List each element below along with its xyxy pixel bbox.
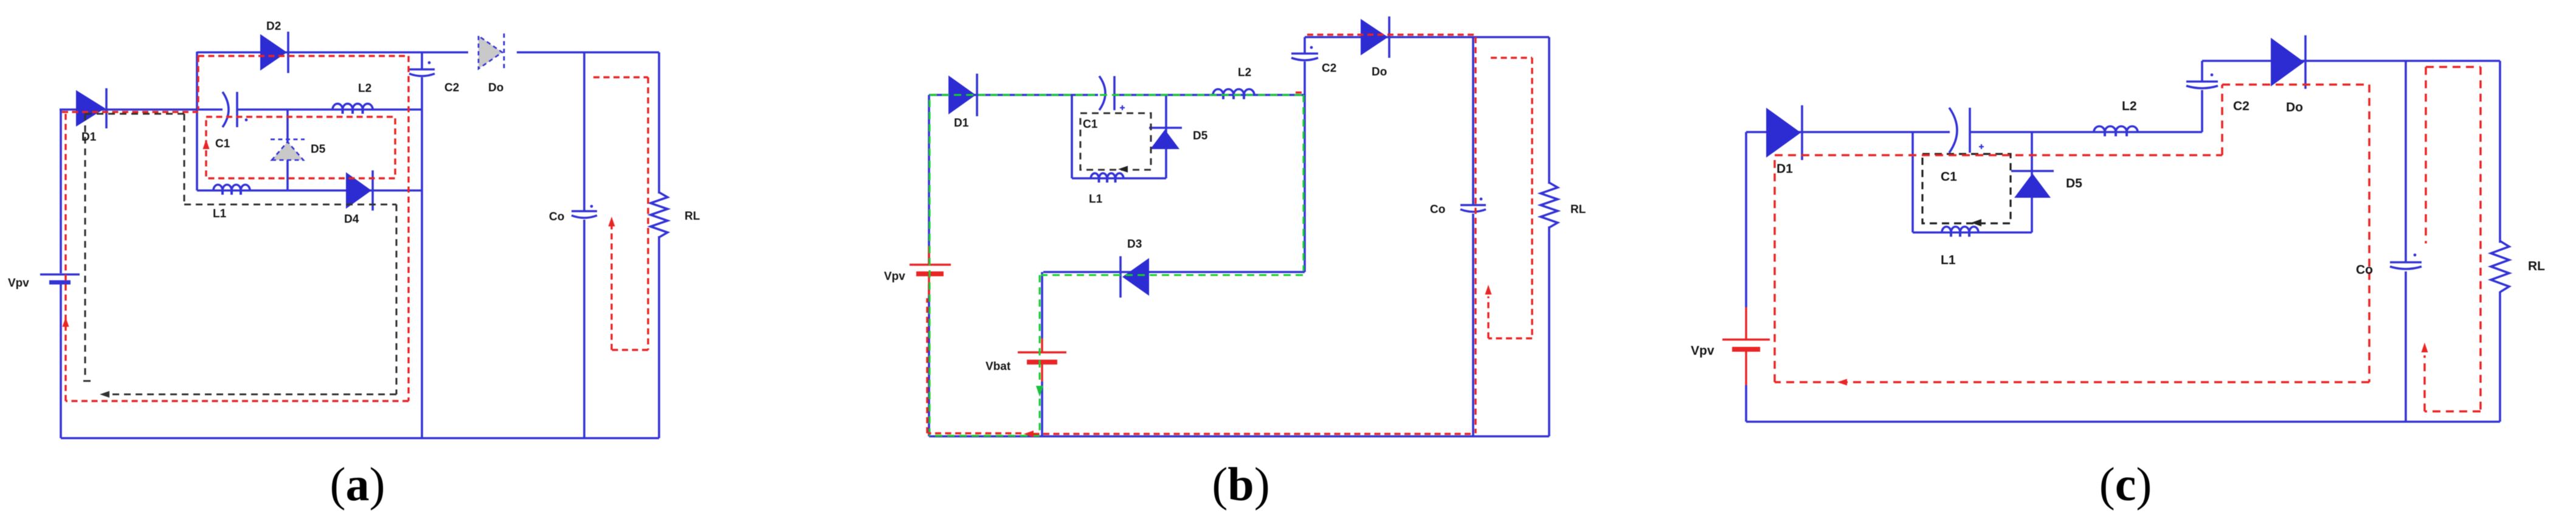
inductor L2 (c) (2094, 127, 2138, 133)
capacitor C1 (b) (1099, 76, 1125, 110)
battery Vbat red (b) (1018, 338, 1066, 382)
wire: C2 branch vertical (a) (421, 52, 423, 69)
black arrow left on bottom (a) (100, 391, 109, 398)
svg-text:Do: Do (1372, 66, 1387, 79)
svg-text:C2: C2 (1322, 62, 1336, 75)
wire: C1 loop left vertical (c) (1911, 132, 1914, 232)
red dashed output loop top (b) (1491, 57, 1532, 58)
wire: left vertical lower (b) (928, 284, 930, 436)
svg-text:RL: RL (1570, 203, 1586, 216)
svg-text:Vpv: Vpv (884, 270, 905, 283)
wire: top rail through Do (c) (2202, 60, 2500, 62)
capacitor C2 (a) (409, 61, 435, 76)
svg-text:L1: L1 (1941, 253, 1956, 267)
diode D5 off/dashed (a) (271, 139, 305, 160)
svg-text:Vbat: Vbat (986, 360, 1011, 373)
wire: Co branch vertical upper (a) (583, 52, 585, 211)
wire: rail C1 to C2 branch (b) (1114, 94, 1305, 96)
capacitor Co (a) (571, 205, 597, 218)
inductor L2 (a) (333, 103, 373, 110)
svg-text:D4: D4 (344, 213, 359, 226)
wire: C1 loop right vertical / D5 branch (c) (2031, 132, 2033, 232)
black dashed path: along input rail (a) (85, 113, 184, 114)
wire: C2 branch vertical lower (c) (2201, 90, 2203, 132)
wire: C2 branch vertical lower to D3 rail (b) (1304, 61, 1306, 272)
black dashed path: left vertical (a) (84, 114, 86, 376)
inductor L1 (c) (1942, 227, 1978, 233)
wire: Co branch vertical upper (c) (2405, 61, 2407, 262)
svg-text:C1: C1 (1083, 118, 1098, 131)
svg-text:C1: C1 (1941, 170, 1957, 184)
svg-text:D3: D3 (1127, 238, 1142, 251)
svg-text:RL: RL (685, 210, 700, 223)
red arrow left on bottom (c) (1837, 379, 1847, 386)
svg-text:Co: Co (1430, 203, 1445, 216)
red dashed path: left vertical (a) (64, 112, 66, 401)
red dashed: below input rail (c) (1775, 154, 2222, 156)
wire: Co branch vertical lower (a) (583, 220, 585, 438)
red dashed inner loop around C1-D5 (a) (206, 117, 395, 178)
red dashed path: top horizontal (a) (198, 55, 409, 57)
wire: top rail after Do to right corner (a) (517, 51, 659, 54)
green dashed: Vbat to bottom (b) (1038, 399, 1040, 435)
wire: right vertical upper (b) (1548, 37, 1550, 184)
red dashed: top rail from C2 to Co branch (b) (1307, 33, 1476, 35)
diode D1 (c) (1766, 105, 1802, 160)
green dashed: bottom to left wire (b) (930, 435, 1040, 436)
wire: C2 branch vertical upper (b) (1304, 37, 1306, 54)
svg-text:L1: L1 (213, 208, 227, 220)
wire: C2 branch vertical upper (c) (2201, 61, 2203, 82)
diode Do off/dashed (a) (478, 33, 504, 71)
wire: right vertical lower (b) (1548, 226, 1550, 436)
wire: D5 branch vertical (a) (286, 110, 289, 190)
svg-text:D5: D5 (1193, 130, 1208, 142)
diode D5 (b) (1149, 128, 1182, 149)
red dashed output loop bottom (c) (2425, 410, 2481, 413)
svg-text:(a): (a) (330, 458, 385, 511)
red arrow left on bottom (b) (1024, 431, 1034, 438)
green dashed: Vbat branch down (b) (1038, 275, 1040, 383)
wire: L1/D4 rail (a) (197, 189, 422, 192)
black tick minus (a) (83, 380, 91, 382)
red dashed output loop left rising (b) (1487, 296, 1489, 338)
wire: rail C1 to L2 to C2 branch (c) (1970, 131, 2202, 133)
svg-text:Do: Do (488, 82, 503, 94)
wire: C1 loop left vertical (b) (1071, 95, 1073, 178)
capacitor Co (c) (2390, 254, 2422, 269)
red dashed: left vertical (c) (1773, 155, 1776, 382)
wire: Co branch vertical upper (b) (1472, 37, 1474, 204)
green dashed: D3 rail (b) (1041, 274, 1303, 276)
green arrow down at Vbat (b) (1036, 386, 1043, 397)
green dashed: C2 branch down (b) (1302, 95, 1304, 271)
wire: bottom rail (b) (929, 435, 1549, 438)
wire: C1 loop right vertical / D5 branch (b) (1165, 95, 1167, 178)
black dashed path: horizontal under L1/D4 (a) (184, 203, 396, 205)
capacitor Co (b) (1460, 198, 1486, 212)
svg-text:D1: D1 (1777, 162, 1793, 176)
wire: C1 loop bottom with L1 (c) (1913, 231, 2032, 234)
capacitor C1 (c) (1949, 108, 1984, 153)
red dashed: top under Do (c) (2222, 83, 2369, 86)
resistor RL (a) (651, 192, 668, 237)
wire: Vbat branch upper (b) (1041, 272, 1043, 338)
red arrow up in output loop (b) (1485, 285, 1492, 295)
diode D3 pointing left (b) (1121, 256, 1149, 298)
svg-text:D1: D1 (954, 117, 969, 130)
red dashed output loop left rising (c) (2423, 355, 2426, 411)
inductor L1 (a) (213, 185, 250, 191)
wire: RL branch vertical upper (a) (658, 52, 660, 194)
red dashed: jog up at C2 (c) (2221, 85, 2223, 155)
black dashed box around C1 (b) (1080, 113, 1151, 170)
red dashed path: top-loop left vertical (a) (197, 56, 199, 110)
red dashed output loop left upper (c) (2425, 67, 2427, 243)
wire: input rail D1 to C1 (b) (929, 94, 1098, 96)
wire: left vertical from rail to Vpv (a) (60, 110, 62, 273)
red dashed output loop left rising (a) (610, 226, 612, 350)
red arrow up in output loop (a) (609, 217, 615, 226)
svg-text:(c): (c) (2099, 458, 2152, 511)
svg-text:Do: Do (2286, 100, 2303, 114)
svg-text:Vpv: Vpv (8, 277, 29, 290)
wire: rail from C1 to C2 branch (a) (237, 108, 422, 111)
red dashed: down right of Co (c) (2368, 85, 2371, 382)
inductor L2 (b) (1213, 89, 1254, 96)
wire: Vbat branch lower (b) (1041, 382, 1043, 436)
wire: left vertical lower (c) (1745, 385, 1747, 422)
red dashed: down Co branch (b) (1474, 37, 1476, 433)
diode Do (b) (1361, 16, 1389, 58)
svg-text:RL: RL (2528, 259, 2545, 273)
svg-text:(b): (b) (1212, 458, 1269, 511)
wire: RL branch vertical lower (a) (658, 236, 660, 438)
capacitor C1 (a) (223, 92, 247, 127)
wire: top rail through Do (b) (1305, 36, 1549, 38)
red dashed: bottom horizontal (c) (1775, 381, 2369, 383)
red dashed: bottom continues to left wire (b) (928, 432, 1021, 434)
red dashed output loop top (c) (2426, 66, 2481, 68)
diode D5 (c) (2011, 171, 2054, 198)
svg-text:C1: C1 (215, 138, 230, 150)
red dashed path: along input rail (a) (62, 111, 198, 113)
battery Vpv red (b) (910, 246, 951, 296)
wire: bottom rail (c) (1746, 421, 2500, 423)
green dashed: left wire up (b) (928, 95, 930, 436)
capacitor C2 (c) (2186, 74, 2218, 88)
red dashed output loop top (a) (593, 76, 648, 78)
red dashed: left wire up to Vpv (b) (926, 298, 928, 433)
wire: Co branch vertical lower (c) (2405, 271, 2407, 422)
red dashed: bottom leftwards (b) (1034, 433, 1471, 435)
black dashed path: right vertical (a) (395, 204, 397, 394)
wire: C1 loop bottom with L1 (b) (1072, 177, 1166, 180)
svg-text:Co: Co (2356, 263, 2373, 277)
wire: C2 branch vertical lower (a) (421, 77, 423, 438)
svg-text:Co: Co (549, 211, 564, 223)
diode D1 (b) (948, 74, 977, 116)
wire: vertical riser at top-loop left (a) (196, 52, 198, 190)
battery Vpv (a) (40, 274, 80, 282)
wire: right vertical lower (c) (2499, 291, 2501, 422)
black dashed path: vertical to L1 box (a) (183, 114, 185, 204)
svg-text:D5: D5 (2066, 176, 2082, 190)
red arrow up in output loop (c) (2422, 343, 2428, 352)
black dashed path: bottom horizontal (a) (103, 393, 396, 395)
red arrow up on left vertical (a) (63, 317, 69, 327)
svg-text:L1: L1 (1089, 193, 1103, 206)
battery Vpv red (c) (1722, 307, 1770, 385)
svg-text:D1: D1 (81, 131, 97, 144)
svg-text:D2: D2 (266, 20, 281, 33)
red dashed output loop right (a) (647, 77, 649, 350)
resistor RL (b) (1541, 183, 1558, 228)
black arrow into L1 (b) (1118, 166, 1128, 173)
red dashed output loop right (b) (1531, 58, 1533, 338)
wire: right vertical upper (c) (2499, 61, 2501, 243)
svg-text:C2: C2 (444, 82, 459, 94)
svg-text:C2: C2 (2233, 99, 2250, 113)
resistor RL (c) (2491, 241, 2509, 292)
red arrow up at C1 (a) (203, 139, 210, 149)
wire: left vertical upper (b) (928, 95, 930, 264)
wire: left vertical upper (c) (1745, 132, 1747, 307)
svg-text:L2: L2 (1238, 66, 1251, 79)
inductor L1 (b) (1091, 173, 1124, 178)
wire: left vertical from Vpv to bottom (a) (60, 282, 62, 438)
wire: input rail D1 to C1 (c) (1746, 131, 1950, 133)
red dashed path: right vertical (a) (407, 56, 409, 401)
red dashed output loop bottom (a) (612, 349, 648, 351)
wire: D3 rail (b) (1043, 271, 1305, 273)
svg-text:L2: L2 (358, 82, 371, 95)
svg-text:Vpv: Vpv (1691, 344, 1714, 358)
wire: input rail with D1 (a) (60, 108, 223, 111)
capacitor C2 (b) (1291, 46, 1318, 60)
red dashed path: bottom horizontal (a) (66, 400, 409, 402)
black dashed box around C1 (c) (1922, 154, 2011, 223)
red tick at C2 junction (b) (1296, 91, 1304, 93)
red dashed output loop right (c) (2479, 67, 2482, 411)
black arrow into L1 (c) (1971, 219, 1981, 226)
svg-text:D5: D5 (311, 143, 326, 156)
red dashed output loop bottom (b) (1488, 337, 1532, 339)
diode D2 (a) (260, 32, 288, 73)
wire: Co branch vertical lower (b) (1472, 214, 1474, 436)
diode Do (c) (2271, 35, 2305, 89)
svg-text:L2: L2 (2122, 99, 2137, 113)
wire: bottom rail (a) (61, 437, 659, 439)
green dashed: input rail (b) (930, 94, 1304, 96)
diode D1 (a) (76, 88, 106, 128)
wire: top rail through D2 (a) (197, 51, 468, 54)
diode D4 (a) (346, 170, 373, 211)
